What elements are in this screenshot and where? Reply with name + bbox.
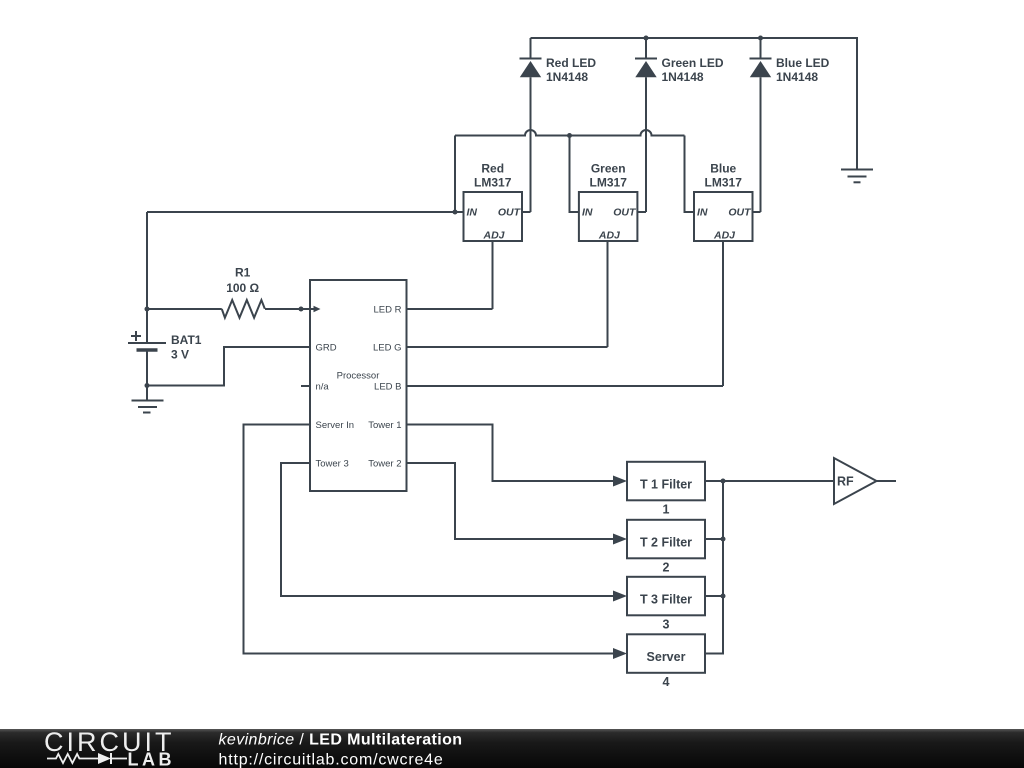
svg-text:RF: RF [837, 474, 854, 488]
node: junction battery negative / GRD return [145, 383, 150, 388]
svg-text:kevinbrice / LED Multilaterati: kevinbrice / LED Multilateration [219, 731, 463, 748]
processor U4 [310, 280, 407, 491]
ground (battery negative) [132, 401, 164, 413]
svg-text:T 3 Filter: T 3 Filter [640, 592, 692, 606]
svg-text:2: 2 [663, 561, 670, 575]
svg-text:100 Ω: 100 Ω [226, 281, 259, 295]
svg-text:LAB: LAB [128, 750, 176, 768]
svg-text:LM317: LM317 [590, 176, 628, 190]
block Server [627, 634, 705, 689]
svg-text:ADJ: ADJ [713, 229, 736, 241]
node: bus junction row 2 [721, 537, 726, 542]
svg-text:IN: IN [467, 207, 478, 219]
svg-text:Server In: Server In [316, 420, 355, 431]
svg-text:1: 1 [663, 503, 670, 517]
svg-text:3 V: 3 V [171, 347, 189, 361]
node: bus junction row 3 [721, 594, 726, 599]
svg-text:OUT: OUT [728, 207, 752, 219]
svg-text:OUT: OUT [498, 207, 522, 219]
wire: battery positive feed to Red LM317 IN [147, 211, 464, 213]
svg-text:Processor: Processor [337, 371, 380, 382]
block T 2 Filter [627, 520, 705, 575]
wire: drop from distribution to Green IN [570, 136, 579, 213]
node: junction at LED R feed pin [299, 307, 304, 312]
wire: Tower 1 pin to T 1 Filter [407, 425, 628, 487]
svg-text:ADJ: ADJ [598, 229, 621, 241]
diode D2 Green LED 1N4148 [635, 36, 724, 213]
svg-text:Red LED: Red LED [546, 56, 596, 70]
wire: drop from distribution to Red IN feed [454, 136, 456, 213]
svg-text:R1: R1 [235, 266, 251, 280]
block T 1 Filter [627, 462, 705, 517]
wire: LED B pin to Blue ADJ [407, 385, 724, 387]
wire: LED G pin to Green ADJ [407, 346, 608, 348]
wire: GRD pin to battery negative [147, 347, 310, 386]
svg-text:Tower 2: Tower 2 [368, 459, 401, 470]
diode D3 Blue LED 1N4148 [750, 36, 830, 213]
svg-text:Red: Red [481, 162, 504, 176]
node: junction Red IN feed [453, 210, 458, 215]
svg-text:LM317: LM317 [705, 176, 743, 190]
wire: Blue LM317 ADJ down to LED B pin row [722, 241, 724, 386]
svg-text:LED G: LED G [373, 343, 402, 354]
wire: T 3 Filter output to bus [705, 595, 723, 597]
svg-text:LED R: LED R [374, 305, 402, 316]
node: junction on distribution wire [567, 133, 572, 138]
svg-text:http://circuitlab.com/cwcre4e: http://circuitlab.com/cwcre4e [219, 751, 444, 768]
svg-text:BAT1: BAT1 [171, 333, 202, 347]
node: junction battery positive / R1 [145, 307, 150, 312]
svg-text:LED B: LED B [374, 382, 401, 393]
svg-text:Tower 1: Tower 1 [368, 420, 401, 431]
wire: Red LM317 ADJ down to LED R pin row [492, 241, 494, 309]
battery BAT1 3 V [128, 212, 202, 401]
wire: LED R pin to Red ADJ [407, 308, 493, 310]
svg-text:1N4148: 1N4148 [546, 70, 588, 84]
block T 3 Filter [627, 577, 705, 632]
svg-text:Green: Green [591, 162, 626, 176]
wire: Server output to bus [705, 481, 723, 654]
wire: T 2 Filter output to bus [705, 538, 723, 540]
svg-text:Blue LED: Blue LED [776, 56, 830, 70]
wire: Tower 3 pin to T 3 Filter [281, 463, 627, 602]
svg-text:Blue: Blue [710, 162, 736, 176]
svg-text:IN: IN [582, 207, 593, 219]
wire: IN distribution with hops over Red and Green LED wires [455, 130, 685, 136]
svg-text:Server: Server [647, 650, 686, 664]
ground (right, top rail) [841, 170, 873, 183]
diode D1 Red LED 1N4148 [520, 38, 597, 212]
svg-text:4: 4 [663, 675, 670, 689]
resistor R1 100 Ohm [147, 266, 301, 318]
footer bar [0, 729, 1024, 768]
regulator U3 Blue LM317 [694, 162, 753, 242]
wire: Tower 2 pin to T 2 Filter [407, 463, 628, 545]
wire: Green LM317 ADJ down to LED G pin row [607, 241, 609, 347]
svg-text:Tower 3: Tower 3 [316, 459, 349, 470]
svg-text:IN: IN [697, 207, 708, 219]
node: bus junction row 1 [721, 479, 726, 484]
svg-text:Green LED: Green LED [662, 56, 724, 70]
svg-text:1N4148: 1N4148 [662, 70, 704, 84]
wire: Blue LM317 OUT to Blue LED [753, 211, 761, 213]
svg-text:ADJ: ADJ [482, 229, 505, 241]
regulator U2 Green LM317 [579, 162, 638, 242]
wire: RF output [877, 480, 897, 482]
CircuitLab logo [44, 727, 175, 768]
wire: Server In pin to Server [244, 425, 628, 660]
wire: top supply rail from Red LED column to right edge, down to ground [531, 38, 858, 170]
svg-text:1N4148: 1N4148 [776, 70, 818, 84]
wire: n/a pin stub [301, 385, 310, 387]
wire: stub into processor LED R pin with arrow [301, 306, 321, 313]
svg-text:T 1 Filter: T 1 Filter [640, 477, 692, 491]
svg-text:n/a: n/a [316, 382, 330, 393]
svg-text:T 2 Filter: T 2 Filter [640, 535, 692, 549]
wire: bus to RF amplifier [723, 480, 834, 482]
svg-text:LM317: LM317 [474, 176, 512, 190]
wire: T 1 Filter output to bus [705, 480, 723, 482]
wire: drop from distribution to Blue IN [685, 136, 695, 213]
svg-text:OUT: OUT [613, 207, 637, 219]
wire: Green LM317 OUT to Green LED [637, 211, 646, 213]
svg-text:GRD: GRD [316, 343, 337, 354]
wire: Red LM317 OUT to Red LED [522, 211, 531, 213]
regulator U1 Red LM317 [464, 162, 523, 242]
svg-text:3: 3 [663, 618, 670, 632]
amplifier RF [834, 458, 877, 504]
